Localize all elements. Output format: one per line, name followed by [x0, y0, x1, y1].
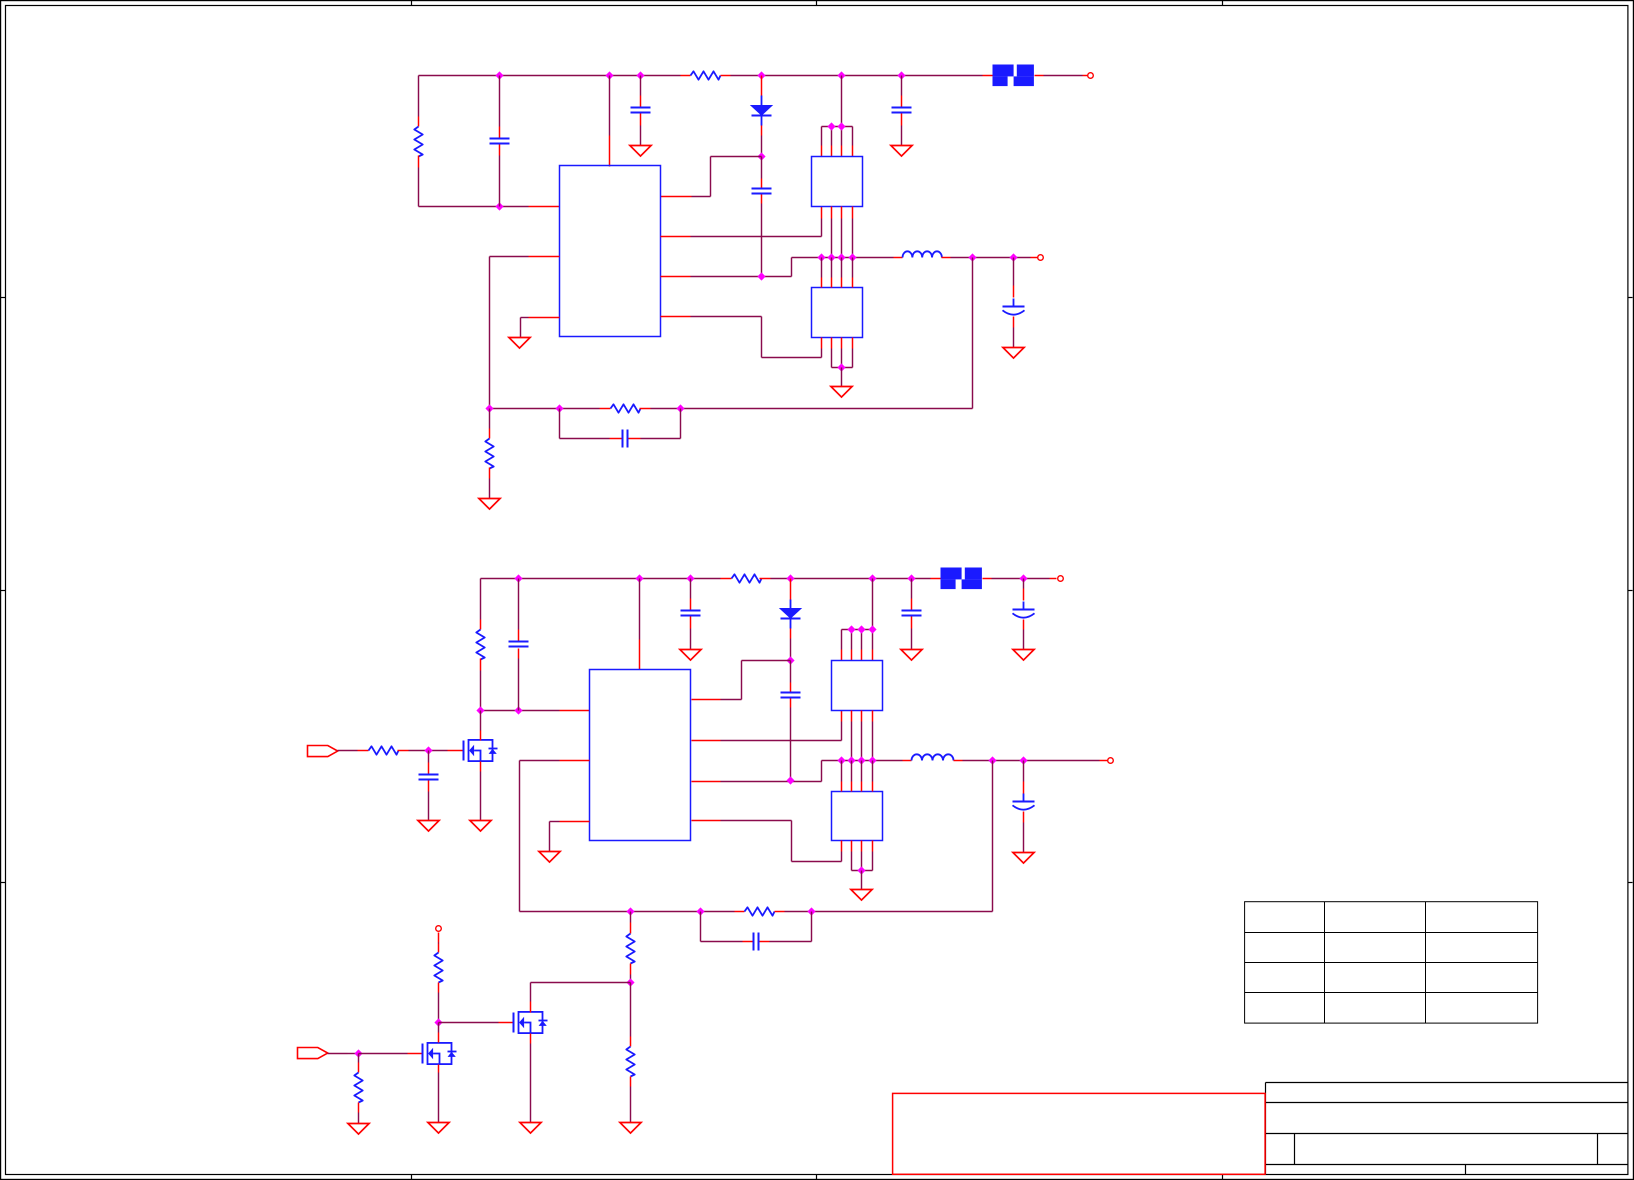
- wire VIN2 rail: [481, 578, 931, 580]
- wire VIN1 to Q1 bus: [841, 76, 843, 127]
- wire FB1 sense: [972, 258, 974, 409]
- capacitor C2: [631, 76, 651, 146]
- capacitor C1: [490, 76, 510, 207]
- capacitor C12 (output 2, polarized): [1013, 761, 1035, 853]
- bus LX2: [822, 756, 903, 764]
- transistor pack Q2: [812, 288, 863, 338]
- ground (C3): [891, 146, 912, 157]
- resistor R10 (FB divider low 2): [626, 983, 634, 1123]
- port P1 VIN1: [1088, 73, 1094, 79]
- M1 source wire: [480, 762, 482, 821]
- wire BST2 to U2: [692, 661, 791, 700]
- capacitor C7 (VIN2, polarized): [1013, 579, 1035, 650]
- transistor pack Q4: [832, 792, 883, 841]
- ground (R12): [348, 1124, 369, 1135]
- transistor pack Q3: [832, 661, 883, 711]
- node M2 drain: [434, 1018, 442, 1026]
- resistor R9 (FB divider high 2): [626, 912, 634, 983]
- wire LX2 from U2: [692, 761, 822, 785]
- wire VIN2 to filter: [931, 578, 941, 580]
- ground (C2): [630, 146, 651, 157]
- wire feedback 1 right: [651, 404, 973, 412]
- wire U2 VIN pin: [639, 579, 641, 670]
- U1 pin 4 wire to Q2: [661, 317, 822, 358]
- U1 pin SW wire to Q1: [661, 207, 822, 237]
- inductor L2: [903, 754, 963, 760]
- capacitor C9: [681, 579, 701, 650]
- Q3 top pin bus: [842, 625, 877, 660]
- Q2 bottom pins: [822, 338, 853, 387]
- resistor R8 (feedback 2): [735, 907, 785, 915]
- M2 drain wire: [438, 1023, 440, 1043]
- node FB2 mid: [626, 978, 634, 986]
- capacitor C8: [509, 579, 529, 711]
- transistor pack Q1: [812, 157, 863, 207]
- revision table: [1245, 902, 1538, 1024]
- Q2 top pins: [822, 258, 853, 288]
- capacitor C4 (bootstrap): [752, 157, 772, 277]
- wire VOUT1: [951, 253, 1038, 261]
- notes area red box: [893, 1093, 1266, 1174]
- wire VOUT2: [963, 756, 1108, 764]
- wire FB1 to port: [1035, 75, 1088, 77]
- Q1 bottom pins: [832, 207, 853, 258]
- IC U1: [560, 166, 661, 337]
- wire FB2 to port: [983, 578, 1057, 580]
- wire M2 drain to M3 gate: [439, 1022, 514, 1024]
- ground (C5): [1003, 348, 1024, 359]
- capacitor C13 (gate 1): [419, 751, 439, 821]
- U1 left pin 2 wire: [490, 257, 560, 409]
- inductor L1: [894, 251, 951, 257]
- U2 left pin 2 wire: [520, 761, 590, 912]
- input connector J1: [308, 746, 338, 757]
- Q4 top pins: [842, 761, 873, 792]
- wire node EN2: [476, 706, 589, 714]
- resistor R6 (left column 2): [476, 579, 484, 711]
- input connector J2: [298, 1048, 328, 1059]
- wire BST1 to U1: [661, 157, 762, 197]
- resistor R5 (VIN2 rail): [721, 574, 771, 582]
- ground (Q4): [851, 890, 872, 901]
- U2 left pin 3 wire: [550, 822, 590, 852]
- M2 source wire: [438, 1065, 440, 1123]
- wire J1 to M1 gate: [338, 750, 369, 752]
- IC U2: [590, 670, 691, 841]
- capacitor C11 (bootstrap 2): [781, 661, 801, 781]
- wire VIN2 to Q3 bus: [872, 579, 874, 630]
- node J2: [354, 1049, 362, 1057]
- wire U1 VIN pin: [609, 76, 611, 167]
- U2 pin 4 wire to Q4: [692, 821, 842, 862]
- resistor R1 (VIN1 rail): [681, 71, 731, 79]
- ground (C12): [1013, 853, 1034, 864]
- M3 drain wire: [531, 983, 631, 1013]
- wire VIN1 rail: [419, 75, 983, 77]
- ground (M3): [520, 1123, 541, 1134]
- feedback net 1: [485, 404, 599, 412]
- capacitor C3: [892, 76, 912, 146]
- ferrite bead FB2: [941, 568, 982, 590]
- ground (C10): [901, 650, 922, 661]
- capacitor C5 (output, polarized): [1003, 258, 1025, 348]
- transistor M3: [514, 1012, 548, 1033]
- capacitor C6 (feedback 1): [560, 409, 681, 448]
- port P2 VOUT1: [1038, 255, 1044, 261]
- ground (U2 GND pin): [539, 852, 560, 863]
- ground (R10): [620, 1123, 641, 1134]
- junction dots on VIN1 rail: [495, 71, 905, 79]
- U2 pin SW wire to Q3: [692, 711, 842, 741]
- resistor R2 (left column): [414, 76, 422, 207]
- Q1 top pin bus: [822, 122, 853, 156]
- ground (C13): [418, 821, 439, 832]
- port P5 (pull-up supply): [436, 926, 442, 932]
- capacitor C10: [902, 579, 922, 650]
- diode D2 (bootstrap 2): [780, 579, 801, 661]
- wire J2 to M2 gate: [328, 1053, 359, 1055]
- ground (C9): [680, 650, 701, 661]
- node BST2: [786, 656, 794, 664]
- wire VIN1 rail to filter: [983, 75, 993, 77]
- ground (U1 GND pin): [509, 338, 530, 349]
- node BST1: [757, 152, 765, 160]
- transistor M2: [423, 1043, 457, 1064]
- ferrite bead FB1: [993, 65, 1034, 87]
- M1 drain wire: [480, 711, 482, 741]
- port P3 VIN2: [1058, 576, 1064, 582]
- transistor M1: [464, 740, 498, 761]
- feedback net 2: [520, 907, 735, 915]
- ground (M2): [428, 1123, 449, 1134]
- port P4 VOUT2: [1108, 758, 1114, 764]
- resistor R7 (gate 1): [369, 746, 464, 754]
- bus LX1: [792, 253, 894, 261]
- ground (Q2): [831, 387, 852, 398]
- title block: [1266, 1083, 1628, 1175]
- Q3 bottom pins: [852, 711, 873, 761]
- junction dots on VIN2 rail: [514, 574, 1027, 582]
- ground (M1): [470, 821, 491, 832]
- ground (R4): [479, 499, 500, 510]
- wire node EN1: [419, 202, 560, 210]
- M3 source wire: [530, 1034, 532, 1123]
- capacitor C14 (feedback 2): [701, 912, 812, 951]
- wire LX1 from U1: [661, 258, 792, 281]
- ground (C7): [1013, 650, 1034, 661]
- wire feedback 2 right: [785, 761, 993, 916]
- resistor R12 (pull-down): [354, 1054, 362, 1124]
- resistor R4 (FB divider low 1): [485, 409, 493, 499]
- U1 left pin 3 wire: [521, 318, 560, 338]
- Q4 bottom pins: [842, 841, 873, 890]
- diode D1 (bootstrap): [751, 76, 772, 157]
- wire J2 to gate bar M2: [359, 1053, 423, 1055]
- resistor R3 (feedback 1): [600, 404, 651, 412]
- resistor R11 (pull-up): [434, 933, 442, 1023]
